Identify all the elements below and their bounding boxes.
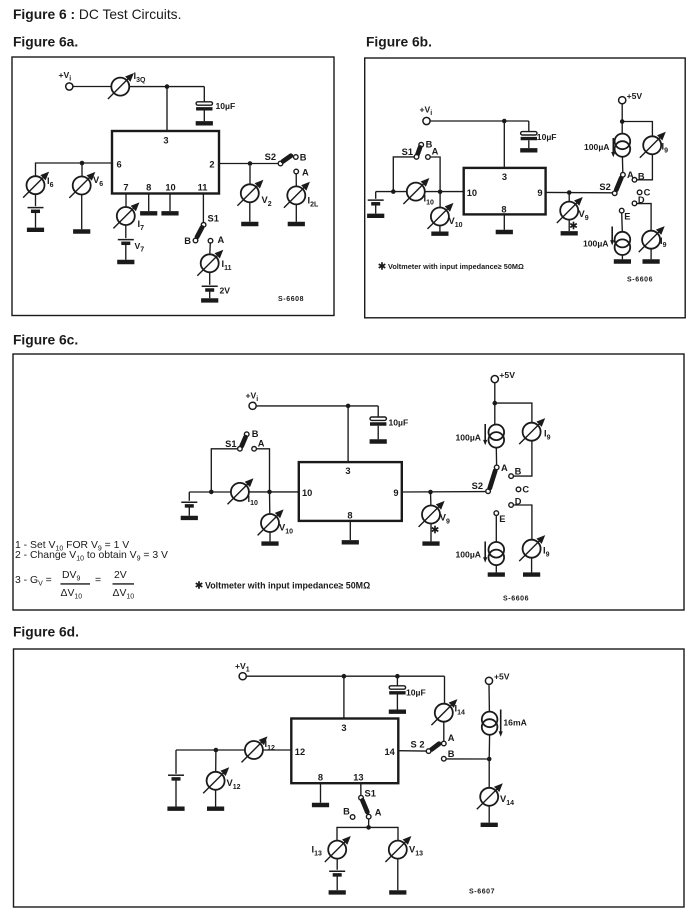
battery I13 xyxy=(329,871,345,875)
node junction B xyxy=(487,757,492,762)
ground V2 xyxy=(241,223,258,225)
svg-text:V10: V10 xyxy=(449,216,463,229)
wire to battery xyxy=(375,192,377,199)
switch S2 pivot xyxy=(612,191,617,196)
svg-text:I14: I14 xyxy=(455,704,465,717)
switch S1 pivot xyxy=(359,795,364,800)
svg-text:B: B xyxy=(343,807,350,817)
svg-text:Voltmeter with input impedance: Voltmeter with input impedance≥ 50MΩ xyxy=(388,262,524,271)
figure 6d frame xyxy=(14,649,685,907)
meter I10 xyxy=(403,178,429,204)
wire junction to V14 xyxy=(488,759,490,788)
svg-text:S 2: S 2 xyxy=(411,740,425,750)
node E contact xyxy=(619,208,624,213)
wire to capacitor xyxy=(528,121,530,132)
wire S1 pivot left down xyxy=(211,449,237,492)
ground I9 xyxy=(523,574,540,576)
svg-text:A: A xyxy=(218,235,225,245)
node B contact xyxy=(509,474,514,479)
figure 6b frame xyxy=(365,58,686,318)
svg-text:2 - Change V10 to obtain V9 =: 2 - Change V10 to obtain V9 = 3 V xyxy=(15,550,168,563)
wire pin 13 to S1 xyxy=(360,783,362,795)
meter V6 xyxy=(69,172,95,198)
battery V7 xyxy=(118,240,134,244)
ground battery xyxy=(181,517,198,519)
svg-text:8: 8 xyxy=(501,204,506,214)
ground V10 xyxy=(431,233,448,235)
svg-text:3 - GV =: 3 - GV = xyxy=(15,575,52,588)
current source 100µA bottom xyxy=(615,232,631,255)
meter V10 xyxy=(258,509,284,535)
wire +5V to current source xyxy=(494,383,496,425)
node A contact xyxy=(208,238,213,243)
svg-text:100µA: 100µA xyxy=(583,238,609,248)
battery 2V xyxy=(202,286,218,290)
wire I3Q to capacitor branch xyxy=(129,86,204,88)
svg-text:2V: 2V xyxy=(114,570,127,581)
switch S1 pivot xyxy=(201,223,206,228)
wire pin 12 to I12 xyxy=(263,749,292,751)
wire to battery xyxy=(188,492,190,501)
ground V9 xyxy=(422,543,439,545)
ground I11 xyxy=(201,299,218,301)
svg-text:10: 10 xyxy=(467,188,477,198)
svg-text:Figure 6a.: Figure 6a. xyxy=(13,35,78,50)
wire A right down xyxy=(430,157,440,192)
svg-text:S-6606: S-6606 xyxy=(627,277,653,284)
wire +Vi to capacitor xyxy=(256,405,378,407)
svg-text:3: 3 xyxy=(345,466,350,476)
wire D to bottom I9 xyxy=(513,505,532,540)
wire B to I9 xyxy=(637,154,653,179)
svg-text:E: E xyxy=(624,211,630,221)
arrow current source xyxy=(500,710,502,732)
fraction bar 2 xyxy=(113,583,135,585)
switch S1 lever xyxy=(197,228,202,238)
meter I9 xyxy=(640,132,666,158)
node junction above pin 3 xyxy=(502,119,507,124)
node B contact xyxy=(419,142,424,147)
svg-text:I9: I9 xyxy=(544,429,551,442)
node A contact xyxy=(621,172,626,177)
wire junction to V10 xyxy=(439,192,441,208)
arrow current source xyxy=(484,424,486,440)
node +5V terminal xyxy=(491,376,498,383)
wire capacitor to ground xyxy=(528,140,530,148)
svg-text:V9: V9 xyxy=(440,513,450,526)
svg-text:B: B xyxy=(448,749,455,759)
wire V13 to ground xyxy=(397,859,399,891)
svg-text:+5V: +5V xyxy=(627,91,643,101)
switch S2 lever xyxy=(616,178,621,190)
node A contact xyxy=(426,155,431,160)
wire 2V to ground xyxy=(209,290,211,298)
wire junction to pin 3 xyxy=(503,121,505,168)
IC U1 box xyxy=(299,462,402,521)
wire pin 11 xyxy=(202,194,204,223)
svg-text:10µF: 10µF xyxy=(216,101,236,111)
wire source to A xyxy=(495,448,497,466)
node C contact xyxy=(637,190,642,195)
wire capacitor to ground xyxy=(203,111,205,122)
wire pin 8 xyxy=(148,194,150,212)
svg-text:+Vi: +Vi xyxy=(59,70,72,83)
wire source to junction xyxy=(488,735,490,759)
meter I9 xyxy=(519,418,545,444)
svg-text:A: A xyxy=(258,438,265,448)
ground pin 8 xyxy=(496,231,513,233)
wire battery to ground xyxy=(188,506,190,516)
ground V10 xyxy=(261,543,278,545)
ground V12 xyxy=(207,808,224,810)
switch S1 lever xyxy=(418,148,421,155)
node +5V terminal xyxy=(485,677,492,684)
wire A right down xyxy=(256,449,269,492)
wire I10 to pin 10 xyxy=(424,191,463,193)
svg-text:DV9: DV9 xyxy=(62,570,80,583)
node C contact xyxy=(516,487,521,492)
node D contact xyxy=(509,503,514,508)
node junction S1 xyxy=(366,825,371,830)
node junction V9 xyxy=(428,490,433,495)
svg-text:I3Q: I3Q xyxy=(134,71,146,84)
wire V6 to ground xyxy=(81,195,83,230)
ground capacitor xyxy=(370,441,387,443)
ground battery xyxy=(367,215,384,217)
wire capacitor to ground xyxy=(377,426,379,440)
node B contact xyxy=(294,155,299,160)
meter V9 xyxy=(419,501,445,527)
svg-text:B: B xyxy=(300,153,307,163)
svg-text:Voltmeter with input impedance: Voltmeter with input impedance≥ 50MΩ xyxy=(205,580,370,590)
svg-text:A: A xyxy=(375,808,382,818)
svg-text:A: A xyxy=(448,733,455,743)
ground V14 xyxy=(481,824,498,826)
ground I6 xyxy=(27,229,44,231)
arrow current source xyxy=(612,138,614,153)
asterisk V9 xyxy=(432,526,439,534)
arrow current source xyxy=(484,542,486,558)
ground pin 10 xyxy=(161,212,178,214)
wire +5V to current source xyxy=(621,104,623,134)
svg-text:100µA: 100µA xyxy=(584,142,610,152)
node junction pin 6 xyxy=(80,161,85,166)
wire battery to I10 xyxy=(376,191,408,193)
wire V10 to ground xyxy=(269,532,271,541)
meter V12 xyxy=(203,767,229,793)
svg-text:9: 9 xyxy=(393,488,398,498)
wire source to A xyxy=(621,157,623,173)
wire V12 to ground xyxy=(215,790,217,807)
svg-text:S1: S1 xyxy=(208,214,219,224)
svg-text:16mA: 16mA xyxy=(503,717,526,727)
svg-text:B: B xyxy=(184,236,191,246)
figure 6a frame xyxy=(12,57,334,316)
meter I7 xyxy=(113,202,139,228)
wire battery to ground xyxy=(375,204,377,214)
svg-text:ΔV10: ΔV10 xyxy=(113,588,135,601)
IC U1 box xyxy=(464,168,546,215)
svg-text:12: 12 xyxy=(295,747,305,757)
wire capacitor to ground xyxy=(396,695,398,710)
svg-text:+Vi: +Vi xyxy=(246,391,259,404)
node junction V12 xyxy=(214,748,219,753)
svg-text:11: 11 xyxy=(198,183,208,193)
switch S2 pivot xyxy=(426,749,431,754)
node +Vi terminal xyxy=(423,117,430,124)
svg-text:10µF: 10µF xyxy=(406,687,426,697)
wire junction to pin 3 xyxy=(343,676,345,718)
svg-text:2V: 2V xyxy=(220,286,231,296)
capacitor 10µF xyxy=(521,132,537,139)
svg-text:Figure 6 : DC Test Circuits.: Figure 6 : DC Test Circuits. xyxy=(13,7,181,22)
svg-text:S1: S1 xyxy=(365,789,376,799)
wire I13 to battery xyxy=(336,859,338,870)
svg-text:I11: I11 xyxy=(222,259,232,272)
switch S2 pivot xyxy=(278,161,283,166)
wire junction to V10 xyxy=(269,492,271,514)
svg-text:C: C xyxy=(522,485,529,495)
wire I14 to A xyxy=(443,722,445,742)
ground V6 xyxy=(73,231,90,233)
svg-text:V13: V13 xyxy=(409,845,423,858)
node junction above pin 3 xyxy=(342,674,347,679)
wire V14 to ground xyxy=(488,806,490,823)
meter I6 xyxy=(23,172,49,198)
svg-text:Figure 6c.: Figure 6c. xyxy=(13,333,78,348)
wire top rail xyxy=(246,675,444,677)
current source 16mA xyxy=(482,712,498,735)
switch S1 lever xyxy=(242,437,246,446)
meter I10 xyxy=(228,478,254,504)
wire E to bottom source xyxy=(495,515,497,542)
node junction S1 branch xyxy=(209,490,214,495)
capacitor 10µF xyxy=(370,417,386,424)
svg-text:+5V: +5V xyxy=(499,370,515,380)
wire battery to ground xyxy=(336,875,338,890)
wire V9 to ground xyxy=(430,524,432,542)
svg-text:8: 8 xyxy=(146,183,151,193)
svg-text:Figure 6b.: Figure 6b. xyxy=(366,35,432,50)
node +Vi terminal xyxy=(66,83,73,90)
node junction V10 xyxy=(438,190,443,195)
meter V2 xyxy=(237,180,263,206)
meter I14 xyxy=(431,699,457,725)
battery xyxy=(168,775,184,779)
switch S2 lever xyxy=(432,744,440,750)
svg-text:V10: V10 xyxy=(279,523,293,536)
IC U1 box xyxy=(112,131,219,194)
wire D to bottom I9 xyxy=(637,204,651,231)
svg-text:I9: I9 xyxy=(660,236,667,249)
svg-text:I13: I13 xyxy=(312,845,322,858)
wire A to I11 xyxy=(209,243,212,254)
wire to battery xyxy=(175,750,177,774)
wire junction to I9 xyxy=(495,403,532,423)
node junction V9 xyxy=(567,190,572,195)
wire pin 8 to ground xyxy=(503,214,505,229)
node junction +5V xyxy=(620,119,625,124)
wire A to I2L xyxy=(295,174,297,187)
ground V13 xyxy=(389,891,406,893)
switch S2 pivot xyxy=(486,489,491,494)
svg-text:A: A xyxy=(432,147,439,157)
svg-text:10µF: 10µF xyxy=(389,417,409,427)
ground source xyxy=(488,574,505,576)
wire rail to I14 xyxy=(444,676,446,704)
svg-text:B: B xyxy=(515,467,522,477)
svg-text:=: = xyxy=(95,575,101,586)
wire pin 10 xyxy=(169,194,171,212)
node D contact xyxy=(632,201,637,206)
svg-text:I10: I10 xyxy=(424,194,434,207)
node junction above pin 3 xyxy=(165,84,170,89)
wire V2 to ground xyxy=(249,202,251,222)
arrow current source xyxy=(611,227,613,241)
svg-text:7: 7 xyxy=(123,183,128,193)
wire junction to V9 xyxy=(430,492,432,506)
wire pin 8 to ground xyxy=(320,783,322,803)
svg-text:V12: V12 xyxy=(227,778,241,791)
asterisk V9 xyxy=(570,222,577,230)
wire junction to I9 xyxy=(622,122,652,137)
node +Vi terminal xyxy=(249,402,256,409)
ground capacitor xyxy=(196,122,213,124)
wire I2L to ground xyxy=(295,204,297,221)
node A contact xyxy=(442,741,447,746)
svg-text:I6: I6 xyxy=(47,176,54,189)
fraction bar 1 xyxy=(61,583,91,585)
svg-text:10: 10 xyxy=(302,488,312,498)
battery xyxy=(368,200,384,204)
wire junction to V6 xyxy=(81,163,83,177)
wire battery to I10 xyxy=(189,491,231,493)
svg-text:3: 3 xyxy=(502,172,507,182)
svg-text:8: 8 xyxy=(347,511,352,521)
svg-text:100µA: 100µA xyxy=(456,550,482,560)
node +5V terminal xyxy=(619,97,626,104)
meter V9 xyxy=(557,197,583,223)
svg-text:10µF: 10µF xyxy=(537,132,557,142)
svg-text:S1: S1 xyxy=(402,147,413,157)
svg-text:S2: S2 xyxy=(265,152,276,162)
svg-text:13: 13 xyxy=(353,773,363,783)
wire B to junction xyxy=(446,758,489,760)
wire I6 to battery xyxy=(35,194,37,206)
asterisk note xyxy=(379,262,386,270)
svg-text:S1: S1 xyxy=(225,439,236,449)
asterisk note xyxy=(196,581,203,589)
svg-text:I10: I10 xyxy=(248,494,258,507)
svg-text:+Vi: +Vi xyxy=(420,105,433,118)
ground V9 xyxy=(561,232,578,234)
switch S1 pivot xyxy=(238,447,243,452)
wire pin 9 to S2 xyxy=(402,491,486,493)
wire I9 to ground xyxy=(531,558,533,573)
node A contact xyxy=(252,447,257,452)
svg-text:Figure 6d.: Figure 6d. xyxy=(13,625,79,640)
capacitor 10µF xyxy=(389,686,405,693)
node B contact xyxy=(350,815,355,820)
wire pin 14 to S2 xyxy=(398,750,426,752)
meter I13 xyxy=(325,836,351,862)
node junction above pin 3 xyxy=(346,404,351,409)
IC U1 box xyxy=(291,719,398,784)
figure 6c frame xyxy=(13,354,684,610)
wire battery to ground xyxy=(35,211,37,227)
wire +5V to current source xyxy=(488,685,490,712)
capacitor 10µF xyxy=(196,102,212,109)
wire I7 to battery V7 xyxy=(125,225,127,238)
svg-text:10: 10 xyxy=(165,183,175,193)
ground pin 8 xyxy=(342,541,359,543)
node junction pin 2 xyxy=(248,161,253,166)
svg-text:I7: I7 xyxy=(138,219,145,232)
wire +Vi to I3Q xyxy=(73,86,111,88)
meter I12 xyxy=(242,736,268,762)
current source 100µA top xyxy=(489,425,505,448)
wire I12 to battery xyxy=(176,749,245,751)
svg-text:S-6607: S-6607 xyxy=(469,889,495,896)
node junction capacitor xyxy=(395,674,400,679)
node junction S1 branch xyxy=(391,189,396,194)
node A contact xyxy=(366,814,371,819)
meter I9 bottom xyxy=(519,535,545,561)
current source 100µA top xyxy=(615,134,631,157)
wire B to I9 xyxy=(513,441,532,476)
switch S2 lever xyxy=(283,156,291,162)
switch S1 pivot xyxy=(414,155,419,160)
svg-text:S-6608: S-6608 xyxy=(278,296,304,303)
meter I9 bottom xyxy=(639,226,665,252)
wire source to ground xyxy=(621,255,623,259)
wire junction to V12 xyxy=(215,750,217,772)
ground capacitor xyxy=(520,149,537,151)
switch S2 lever xyxy=(490,471,495,488)
node +V1 terminal xyxy=(239,673,246,680)
wire E to bottom source xyxy=(621,213,624,232)
wire to capacitor xyxy=(203,87,205,102)
meter V13 xyxy=(385,836,411,862)
wire to capacitor xyxy=(396,676,398,686)
node junction +5V xyxy=(493,401,498,406)
svg-text:A: A xyxy=(302,168,309,178)
meter I3Q xyxy=(108,73,134,99)
svg-text:V9: V9 xyxy=(579,209,589,222)
svg-text:V6: V6 xyxy=(93,175,103,188)
node A contact xyxy=(294,169,299,174)
wire V10 to ground xyxy=(439,226,441,232)
wire V9 to ground xyxy=(568,220,570,232)
node B contact xyxy=(244,432,249,437)
ground I2L xyxy=(288,223,305,225)
svg-text:S-6606: S-6606 xyxy=(503,596,529,603)
ground source xyxy=(614,261,631,263)
svg-text:3: 3 xyxy=(341,723,346,733)
svg-text:9: 9 xyxy=(537,188,542,198)
wire junction to V2 xyxy=(249,166,251,185)
svg-text:I9: I9 xyxy=(543,546,550,559)
wire V7 to ground xyxy=(125,243,127,259)
wire I11 to battery 2V xyxy=(209,272,211,285)
svg-text:+V1: +V1 xyxy=(235,661,250,674)
node A contact xyxy=(494,465,499,470)
wire +Vi to capacitor xyxy=(430,120,529,122)
meter I2L xyxy=(284,182,310,208)
switch S1 lever xyxy=(363,801,368,813)
current source 100µA bottom xyxy=(489,542,505,565)
wire junction branches xyxy=(337,827,398,840)
